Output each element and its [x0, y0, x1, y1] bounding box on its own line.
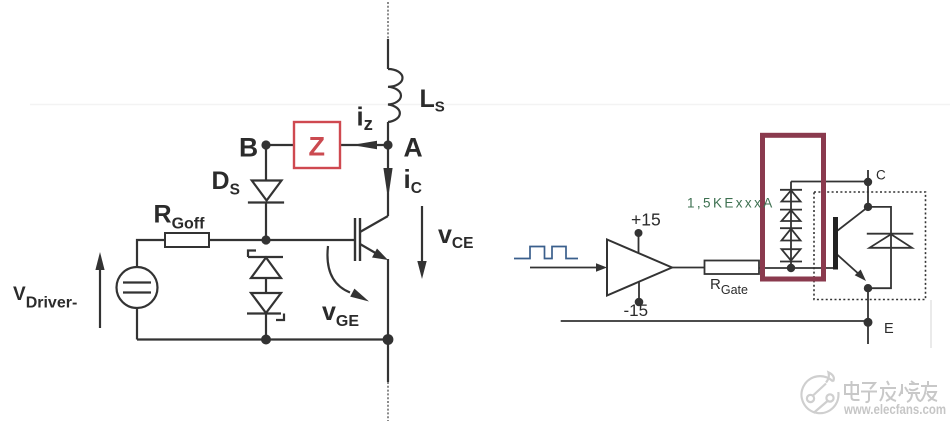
IGBT T1 body bar: [359, 218, 361, 261]
wire: +15 stub: [638, 235, 640, 254]
wire: bottom rail right: [561, 320, 868, 322]
bottom rail junction dot (emitter): [383, 334, 394, 345]
zener clamp D2 cathode bar: [247, 312, 281, 314]
wire: emitter to E node and below: [867, 288, 869, 344]
C net junction dot: [864, 178, 872, 186]
TVS highlight box (maroon): [763, 135, 824, 279]
resistor RGoff body: [165, 233, 209, 247]
wire: top feed to inductor: [387, 39, 389, 69]
VCE arrow shaft: [421, 206, 423, 263]
svg-text:RGoff: RGoff: [154, 201, 206, 233]
wire: TVS top to collector net: [791, 181, 868, 183]
wire: dashed bus stub top: [387, 2, 389, 39]
TVS zener Z1 bar: [780, 189, 802, 191]
svg-text:-15: -15: [624, 301, 649, 320]
svg-text:www.elecfans.com: www.elecfans.com: [843, 401, 946, 417]
wire: node A to collector (ic branch): [387, 145, 389, 216]
scan artifact vertical: [930, 300, 932, 348]
wire: between clamp diodes: [265, 278, 267, 293]
watermark char 发: [880, 381, 896, 401]
wire: clamp to bottom rail: [265, 314, 267, 340]
node A junction dot: [383, 140, 392, 149]
wire: input arrow shaft: [530, 267, 598, 269]
watermark char 电: [845, 381, 860, 400]
svg-text:+15: +15: [631, 210, 661, 230]
svg-text:DS: DS: [212, 167, 240, 199]
zener clamp D1 cathode bar: [248, 256, 283, 258]
diode DS (anode top, cathode bar bottom): [252, 181, 282, 201]
svg-text:E: E: [884, 321, 894, 337]
zener clamp bottom hook: [276, 314, 284, 321]
impedance Z box (red): [294, 122, 340, 168]
wire: solid stub below rail: [387, 340, 389, 383]
TVS zener Z2 bar: [780, 209, 802, 211]
wire: inductor to node A: [387, 122, 389, 145]
TVS zener Z2 triangle: [782, 210, 801, 221]
wire: Z box to node B: [266, 144, 294, 146]
inductor LS coil: [388, 69, 403, 122]
svg-text:RGate: RGate: [710, 276, 748, 297]
wire: source bottom to bottom rail: [136, 308, 138, 340]
wire: -15 stub: [638, 282, 640, 300]
scan artifact faint line: [30, 104, 950, 106]
IGBT T1 gate bar: [354, 218, 356, 261]
zener clamp top hook: [248, 251, 256, 258]
svg-text:A: A: [404, 133, 423, 163]
watermark logo swoosh: [826, 372, 834, 382]
wire: bottom rail left: [137, 338, 388, 340]
watermark char 烧: [899, 381, 921, 402]
TVS zener Z4 bar: [780, 261, 802, 263]
IGBT T1 collector diagonal: [360, 216, 388, 232]
freewheel diode branch top: [868, 207, 891, 288]
emitter junction dot: [864, 284, 872, 292]
wire: DS to gate node: [265, 203, 267, 241]
node B junction dot: [261, 140, 270, 149]
gate node junction dot: [261, 235, 270, 244]
snubber module dotted box: [814, 192, 926, 300]
wire: amp output to RGate: [672, 267, 705, 269]
IGBT T2 emitter diagonal: [837, 254, 861, 276]
driver amp U1 triangle: [607, 240, 672, 296]
watermark logo circle: [801, 376, 838, 413]
svg-text:Z: Z: [309, 132, 326, 162]
zener clamp D1 triangle (points up): [251, 258, 281, 279]
voltage source VDriver- circle: [117, 267, 158, 308]
+15 dot: [635, 229, 643, 237]
IGBT T2 emitter arrowhead: [855, 270, 866, 282]
watermark logo link line upper: [813, 384, 826, 396]
iz arrowhead (points left): [352, 141, 377, 150]
wire: source to resistor: [137, 240, 165, 267]
input square wave: [514, 247, 578, 259]
watermark logo node circle left: [807, 395, 814, 402]
-15 dot: [635, 298, 644, 307]
watermark logo node circle right: [826, 394, 833, 401]
voltage source plates: [123, 281, 151, 283]
IGBT T1 emitter arrowhead: [372, 249, 388, 261]
svg-text:vCE: vCE: [438, 221, 473, 252]
svg-text:iz: iz: [357, 104, 373, 135]
input arrowhead: [596, 263, 607, 271]
resistor RGate body: [705, 261, 760, 275]
ic arrowhead (points down): [383, 168, 392, 199]
TVS zener Z3 triangle: [782, 229, 801, 241]
IGBT T1 emitter diagonal: [360, 244, 384, 258]
wire: RGate to IGBT gate: [759, 267, 834, 269]
IGBT T2 body bar (thick): [833, 217, 838, 270]
collector junction dot: [864, 203, 872, 211]
svg-text:VDriver-: VDriver-: [13, 284, 77, 312]
TVS zener Z3 bar: [780, 227, 802, 229]
svg-text:1,5KExxxA: 1,5KExxxA: [687, 196, 775, 211]
zener clamp D2 triangle (points down): [251, 293, 281, 313]
wire: iz horizontal A to Z box: [340, 144, 388, 146]
svg-text:iC: iC: [404, 164, 422, 197]
TVS zener Z1 triangle: [782, 190, 801, 201]
svg-text:C: C: [876, 168, 886, 183]
VGE arrowhead: [350, 289, 369, 302]
watermark char 友: [921, 381, 937, 401]
TVS stack spine: [790, 182, 792, 269]
freewheel diode D2 cathode bar: [867, 233, 914, 235]
VGE curved arrow: [327, 246, 350, 293]
TVS bottom junction dot: [787, 264, 795, 272]
VDriver- arrow shaft: [99, 268, 101, 328]
svg-text:B: B: [239, 133, 258, 163]
VCE arrowhead (down): [417, 261, 426, 279]
watermark logo link line lower: [814, 401, 828, 413]
wire: B down to diode DS: [265, 145, 267, 181]
watermark char 子: [861, 383, 877, 402]
wire: emitter down to rail: [387, 259, 389, 340]
wire: C stub top: [867, 170, 869, 207]
wire: dashed bus stub bottom: [387, 382, 389, 421]
svg-text:LS: LS: [420, 85, 445, 116]
IGBT T2 collector diagonal: [837, 207, 868, 231]
VDriver- arrowhead (up): [95, 252, 104, 270]
bottom rail junction dot (clamp): [261, 335, 271, 345]
TVS zener Z4 triangle (points down): [782, 249, 801, 260]
E node junction dot: [864, 318, 873, 327]
svg-text:vGE: vGE: [322, 298, 359, 330]
freewheel diode D2 triangle (points up): [870, 234, 913, 248]
wire: gate rail (resistor to IGBT gate): [209, 239, 354, 241]
